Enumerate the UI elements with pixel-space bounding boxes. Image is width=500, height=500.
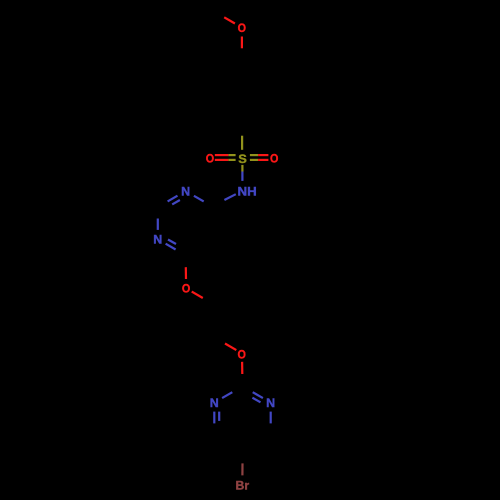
svg-text:N: N bbox=[181, 184, 190, 198]
svg-text:O: O bbox=[238, 348, 246, 362]
svg-text:N: N bbox=[210, 396, 219, 410]
svg-text:N: N bbox=[153, 232, 162, 246]
svg-text:N: N bbox=[266, 396, 275, 410]
svg-text:Br: Br bbox=[236, 479, 250, 493]
svg-text:NH: NH bbox=[238, 184, 257, 198]
svg-text:O: O bbox=[182, 282, 190, 296]
svg-text:O: O bbox=[206, 152, 214, 166]
svg-text:O: O bbox=[238, 21, 246, 35]
svg-text:S: S bbox=[238, 152, 247, 166]
svg-text:O: O bbox=[270, 152, 278, 166]
